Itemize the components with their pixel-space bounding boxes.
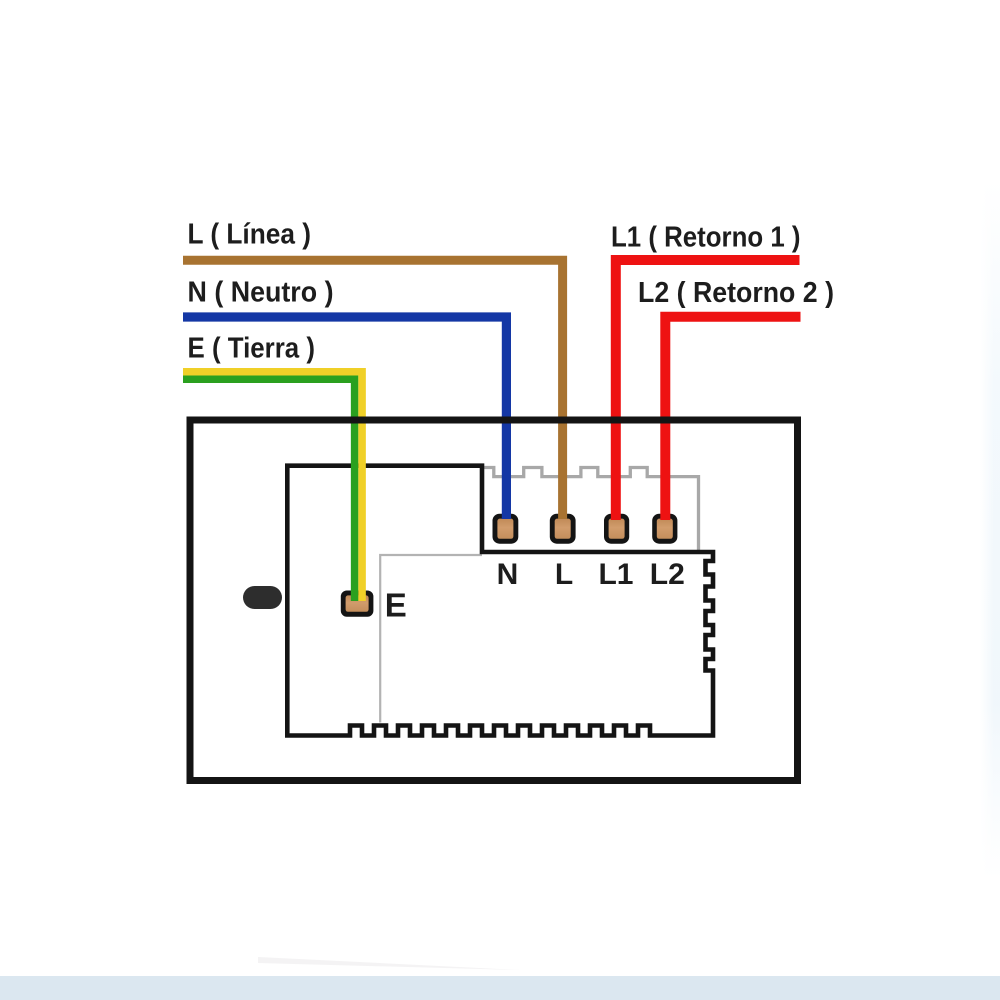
terminal L2 <box>652 514 677 544</box>
wire L2 red <box>665 317 800 520</box>
svg-text:L1: L1 <box>598 558 633 591</box>
terminal L1 <box>604 514 629 544</box>
smart switch module outline <box>287 466 713 736</box>
terminal N <box>493 514 519 544</box>
wire L1 red <box>616 260 800 520</box>
svg-text:E: E <box>385 587 407 624</box>
svg-text:E ( Tierra ): E ( Tierra ) <box>188 333 316 365</box>
svg-text:L2 ( Retorno 2 ): L2 ( Retorno 2 ) <box>638 277 834 309</box>
LED indicator <box>243 586 282 609</box>
svg-text:L: L <box>555 558 573 591</box>
terminal L <box>550 514 576 544</box>
svg-text:N: N <box>497 558 519 591</box>
terminal E <box>341 591 374 617</box>
right edge blue tint <box>980 180 1000 880</box>
wire N blue <box>183 317 506 519</box>
svg-text:L ( Línea ): L ( Línea ) <box>188 219 312 251</box>
switch enclosure box <box>190 420 798 781</box>
wire E yellow <box>183 372 362 601</box>
gray castellated terminal-block top line <box>483 468 699 553</box>
svg-text:L2: L2 <box>650 558 685 591</box>
faint diagonal reflection <box>258 957 520 970</box>
wire E green <box>183 379 355 601</box>
svg-text:N ( Neutro ): N ( Neutro ) <box>188 276 334 308</box>
svg-text:L1 ( Retorno 1 ): L1 ( Retorno 1 ) <box>611 221 801 253</box>
inner PCB gray outline <box>380 555 482 723</box>
wire L brown <box>183 260 563 519</box>
bottom blue strip <box>0 976 1000 1000</box>
